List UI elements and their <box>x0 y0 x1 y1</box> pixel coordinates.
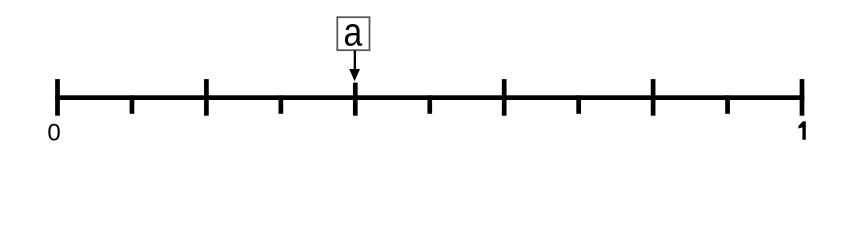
arrow shaft from box to number line <box>354 51 356 72</box>
arrowhead pointing to 0.4 <box>349 69 360 81</box>
major tick 0.8 <box>651 79 656 116</box>
major tick 0 <box>55 79 60 116</box>
minor tick 0.5 <box>427 95 432 114</box>
major tick 0.4 (shortened below arrow) <box>353 83 358 116</box>
minor tick 0.7 <box>576 95 581 114</box>
major tick 1 <box>800 79 805 116</box>
label box for a <box>337 17 369 50</box>
label 1 <box>798 121 805 139</box>
svg-text:0: 0 <box>47 119 60 146</box>
major tick 0.2 <box>204 79 209 116</box>
minor tick 0.9 <box>725 95 730 114</box>
svg-text:a: a <box>343 10 362 54</box>
minor tick 0.3 <box>279 95 284 114</box>
number line axis <box>55 95 804 100</box>
major tick 0.6 <box>502 79 507 116</box>
minor tick 0.1 <box>130 95 135 114</box>
